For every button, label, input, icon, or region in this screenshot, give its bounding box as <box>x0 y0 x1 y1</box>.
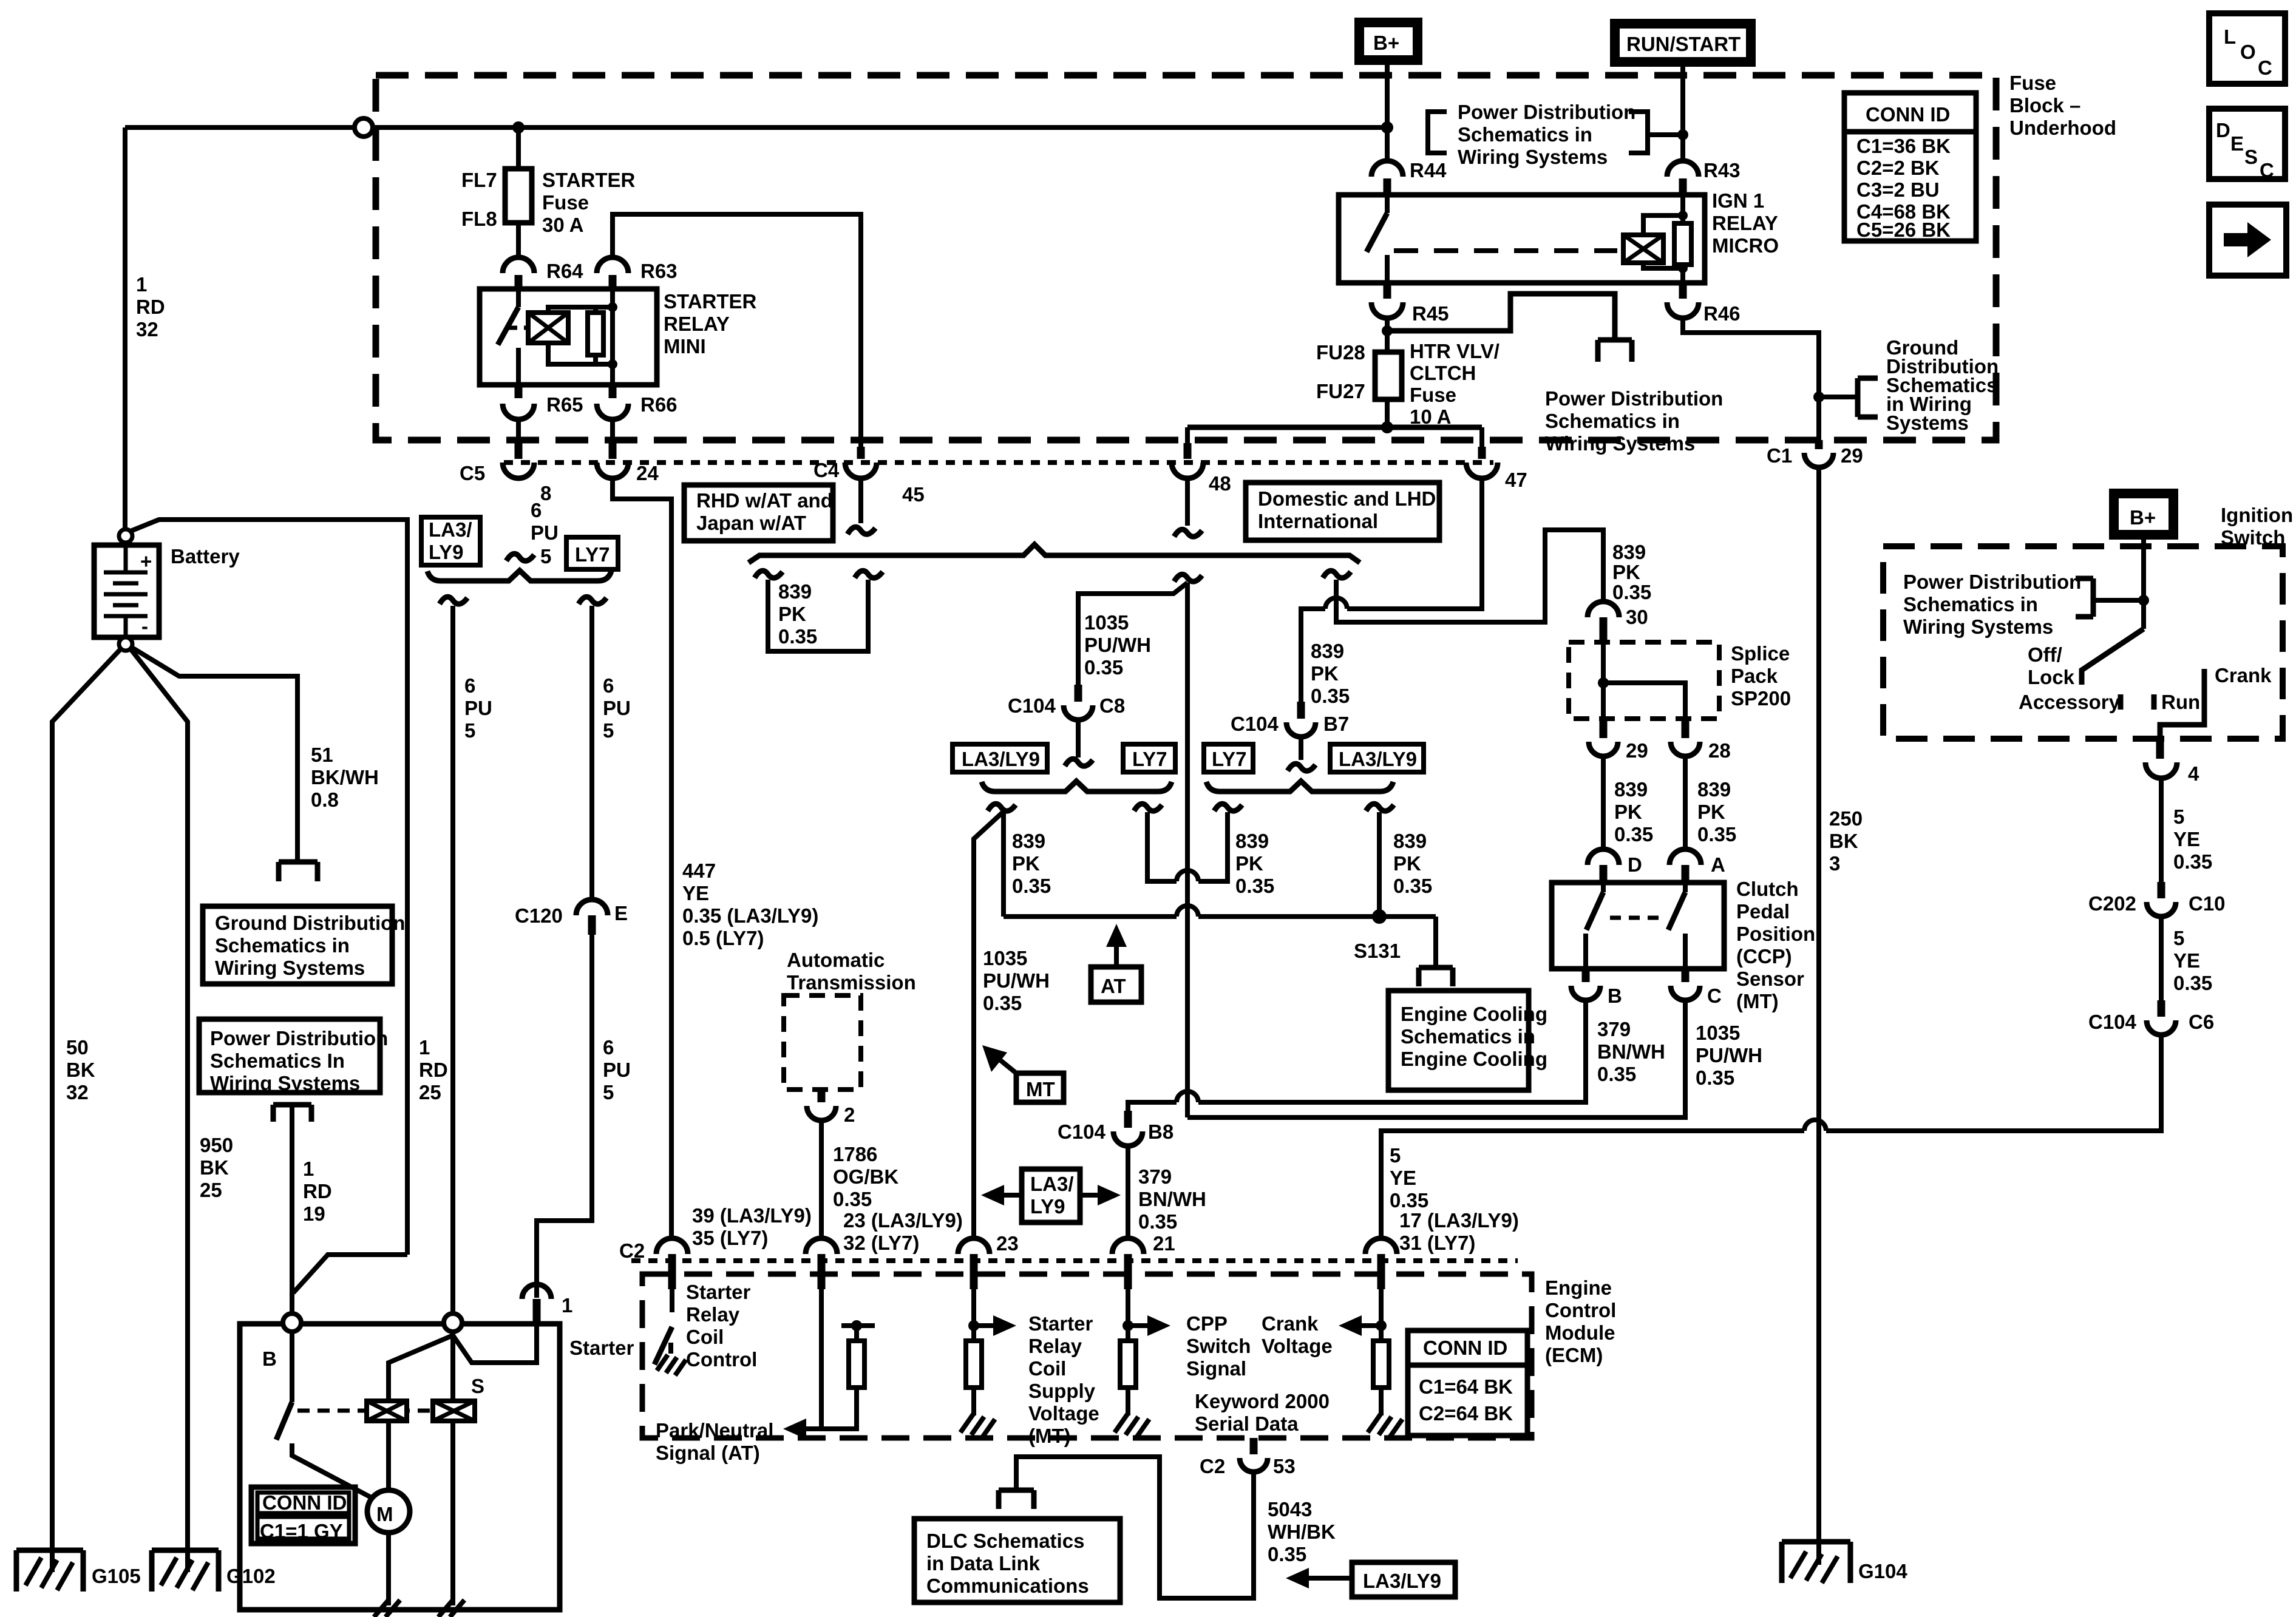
svg-text:5: 5 <box>1390 1144 1401 1167</box>
svg-text:FU27: FU27 <box>1316 380 1365 402</box>
svg-text:B: B <box>262 1347 277 1370</box>
svg-text:2: 2 <box>844 1103 855 1126</box>
svg-text:Systems: Systems <box>1886 412 1969 434</box>
svg-text:PK: PK <box>1012 852 1040 875</box>
svg-text:Voltage: Voltage <box>1262 1335 1333 1357</box>
svg-text:YE: YE <box>1390 1167 1416 1189</box>
svg-text:Starter: Starter <box>686 1281 751 1303</box>
svg-text:C104: C104 <box>1231 713 1279 735</box>
svg-text:0.35: 0.35 <box>1235 875 1274 897</box>
svg-text:Signal (AT): Signal (AT) <box>656 1442 760 1464</box>
svg-text:DLC Schematics: DLC Schematics <box>926 1530 1084 1552</box>
svg-text:45: 45 <box>902 483 925 506</box>
svg-text:0.35 (LA3/LY9): 0.35 (LA3/LY9) <box>682 904 818 927</box>
svg-text:32: 32 <box>66 1081 89 1103</box>
svg-text:839: 839 <box>1612 541 1646 563</box>
svg-text:R46: R46 <box>1703 302 1741 325</box>
svg-text:D: D <box>2216 119 2230 141</box>
svg-text:Voltage: Voltage <box>1028 1402 1099 1425</box>
svg-text:0.35: 0.35 <box>1084 656 1123 679</box>
svg-text:IGN 1: IGN 1 <box>1712 189 1764 212</box>
svg-text:53: 53 <box>1273 1455 1296 1477</box>
svg-text:PU: PU <box>531 521 559 544</box>
svg-text:L: L <box>2224 25 2236 48</box>
svg-text:C5=26 BK: C5=26 BK <box>1856 219 1951 241</box>
svg-text:C6: C6 <box>2189 1011 2214 1033</box>
svg-text:B+: B+ <box>1373 32 1399 54</box>
svg-text:839: 839 <box>1012 830 1045 852</box>
svg-text:10 A: 10 A <box>1410 405 1451 428</box>
svg-text:BK: BK <box>1829 830 1858 852</box>
svg-text:STARTER: STARTER <box>542 169 636 191</box>
svg-text:LA3/LY9: LA3/LY9 <box>1339 748 1417 770</box>
svg-text:Schematics In: Schematics In <box>210 1049 345 1072</box>
svg-text:0.8: 0.8 <box>311 788 339 811</box>
svg-text:RD: RD <box>136 296 165 318</box>
svg-text:35 (LY7): 35 (LY7) <box>692 1227 768 1249</box>
svg-text:R64: R64 <box>546 260 583 282</box>
svg-text:839: 839 <box>1393 830 1427 852</box>
svg-text:Pedal: Pedal <box>1736 900 1790 923</box>
svg-text:Schematics in: Schematics in <box>1401 1025 1535 1048</box>
svg-text:Sensor: Sensor <box>1736 968 1804 990</box>
svg-text:C1=36 BK: C1=36 BK <box>1856 135 1951 157</box>
svg-text:R63: R63 <box>640 260 678 282</box>
svg-text:1: 1 <box>419 1036 430 1059</box>
svg-text:839: 839 <box>778 580 812 603</box>
svg-text:5: 5 <box>2173 927 2184 949</box>
svg-text:Switch: Switch <box>1186 1335 1251 1357</box>
svg-text:Engine Cooling: Engine Cooling <box>1401 1003 1547 1025</box>
svg-text:FU28: FU28 <box>1316 341 1365 364</box>
svg-text:PU/WH: PU/WH <box>983 969 1050 992</box>
svg-text:Control: Control <box>1545 1299 1616 1321</box>
svg-text:R44: R44 <box>1410 159 1447 181</box>
svg-text:23 (LA3/LY9): 23 (LA3/LY9) <box>843 1209 963 1232</box>
svg-text:YE: YE <box>2173 828 2200 850</box>
svg-text:Coil: Coil <box>1028 1357 1066 1380</box>
svg-text:5: 5 <box>603 719 614 742</box>
svg-text:PK: PK <box>1614 801 1642 823</box>
svg-text:PK: PK <box>1235 852 1263 875</box>
svg-text:B: B <box>1608 985 1622 1007</box>
svg-text:CONN ID: CONN ID <box>262 1491 347 1514</box>
svg-text:839: 839 <box>1235 830 1269 852</box>
svg-text:6: 6 <box>603 1036 614 1059</box>
svg-text:Schematics in: Schematics in <box>1458 123 1592 146</box>
svg-text:Off/: Off/ <box>2028 643 2062 666</box>
svg-text:B8: B8 <box>1148 1120 1173 1143</box>
svg-text:Module: Module <box>1545 1321 1615 1344</box>
svg-text:PK: PK <box>1311 662 1339 685</box>
svg-text:FL7: FL7 <box>461 169 497 191</box>
svg-text:950: 950 <box>200 1134 233 1156</box>
svg-text:0.35: 0.35 <box>2173 972 2212 994</box>
svg-text:Park/Neutral: Park/Neutral <box>656 1419 773 1442</box>
svg-text:C: C <box>1707 985 1722 1007</box>
svg-text:OG/BK: OG/BK <box>833 1165 898 1188</box>
svg-text:CLTCH: CLTCH <box>1410 362 1476 384</box>
svg-text:FL8: FL8 <box>461 208 497 230</box>
svg-text:Power Distribution: Power Distribution <box>1545 387 1723 410</box>
svg-text:23: 23 <box>996 1232 1019 1255</box>
svg-text:Starter: Starter <box>1028 1312 1093 1335</box>
svg-text:839: 839 <box>1614 778 1648 801</box>
svg-text:1035: 1035 <box>1696 1022 1740 1044</box>
svg-text:30 A: 30 A <box>542 214 583 236</box>
svg-text:RELAY: RELAY <box>664 313 730 335</box>
svg-text:Ignition: Ignition <box>2221 504 2293 526</box>
svg-text:LA3/LY9: LA3/LY9 <box>1363 1570 1441 1592</box>
svg-text:Wiring Systems: Wiring Systems <box>1545 432 1695 455</box>
svg-text:MT: MT <box>1026 1078 1055 1100</box>
svg-text:Power Distribution: Power Distribution <box>1903 571 2081 593</box>
svg-text:5: 5 <box>540 545 551 568</box>
svg-text:1: 1 <box>562 1294 572 1317</box>
svg-text:Signal: Signal <box>1186 1357 1246 1380</box>
svg-text:MICRO: MICRO <box>1712 234 1779 257</box>
svg-text:PK: PK <box>1697 801 1725 823</box>
svg-text:YE: YE <box>682 882 709 904</box>
svg-text:YE: YE <box>2173 949 2200 972</box>
svg-text:PK: PK <box>778 603 806 625</box>
svg-text:Coil: Coil <box>686 1326 724 1348</box>
svg-text:32: 32 <box>136 318 158 341</box>
svg-text:BN/WH: BN/WH <box>1138 1188 1206 1210</box>
svg-text:Serial Data: Serial Data <box>1195 1412 1299 1435</box>
svg-text:C120: C120 <box>515 904 563 927</box>
svg-text:Relay: Relay <box>1028 1335 1082 1357</box>
svg-text:0.35: 0.35 <box>1696 1066 1734 1089</box>
svg-text:Schematics in: Schematics in <box>215 934 350 957</box>
svg-text:29: 29 <box>1626 739 1648 762</box>
svg-text:CONN ID: CONN ID <box>1423 1337 1507 1359</box>
svg-text:Fuse: Fuse <box>542 191 589 214</box>
svg-text:PU: PU <box>603 697 631 719</box>
svg-text:1786: 1786 <box>833 1143 877 1165</box>
svg-text:0.35: 0.35 <box>983 992 1022 1014</box>
svg-text:C202: C202 <box>2088 892 2136 915</box>
svg-text:Wiring Systems: Wiring Systems <box>215 957 365 979</box>
svg-text:5043: 5043 <box>1268 1498 1312 1520</box>
svg-text:17 (LA3/LY9): 17 (LA3/LY9) <box>1399 1209 1519 1232</box>
svg-text:50: 50 <box>66 1036 89 1059</box>
svg-text:LY7: LY7 <box>1212 748 1247 770</box>
svg-text:G104: G104 <box>1858 1560 1907 1582</box>
svg-text:C1=1 GY: C1=1 GY <box>260 1520 343 1542</box>
svg-text:Position: Position <box>1736 923 1815 945</box>
svg-text:M: M <box>376 1503 393 1525</box>
svg-text:Wiring Systems: Wiring Systems <box>210 1072 360 1094</box>
svg-text:Wiring Systems: Wiring Systems <box>1903 615 2053 638</box>
svg-text:HTR VLV/: HTR VLV/ <box>1410 340 1500 362</box>
svg-text:G102: G102 <box>226 1565 276 1587</box>
svg-text:S131: S131 <box>1354 940 1401 962</box>
svg-text:C: C <box>2260 159 2274 181</box>
svg-text:Relay: Relay <box>686 1303 740 1326</box>
svg-text:0.35: 0.35 <box>778 625 817 648</box>
svg-text:Block –: Block – <box>2009 94 2080 117</box>
svg-text:R65: R65 <box>546 393 583 416</box>
svg-text:Pack: Pack <box>1731 665 1778 687</box>
svg-text:International: International <box>1258 510 1378 532</box>
svg-text:R43: R43 <box>1703 159 1741 181</box>
svg-text:5: 5 <box>603 1081 614 1103</box>
svg-text:0.5 (LY7): 0.5 (LY7) <box>682 927 764 949</box>
svg-text:S: S <box>2244 146 2258 168</box>
svg-text:Schematics in: Schematics in <box>1545 410 1680 432</box>
svg-text:PK: PK <box>1393 852 1421 875</box>
svg-text:Run: Run <box>2161 691 2200 713</box>
svg-text:CONN ID: CONN ID <box>1866 103 1950 126</box>
svg-text:0.35: 0.35 <box>1138 1210 1177 1233</box>
svg-text:G105: G105 <box>92 1565 141 1587</box>
svg-text:839: 839 <box>1697 778 1731 801</box>
svg-text:0.35: 0.35 <box>1268 1543 1306 1565</box>
svg-text:C104: C104 <box>2088 1011 2137 1033</box>
svg-text:Starter: Starter <box>569 1337 634 1359</box>
svg-text:D: D <box>1628 853 1642 876</box>
svg-text:Transmission: Transmission <box>787 971 916 994</box>
svg-text:(MT): (MT) <box>1028 1425 1071 1447</box>
svg-text:0.35: 0.35 <box>833 1188 872 1210</box>
svg-text:0.35: 0.35 <box>1697 823 1736 846</box>
svg-text:SP200: SP200 <box>1731 687 1791 710</box>
svg-text:Lock: Lock <box>2028 666 2075 688</box>
svg-text:Wiring Systems: Wiring Systems <box>1458 146 1608 168</box>
svg-text:LA3/LY9: LA3/LY9 <box>962 748 1040 770</box>
svg-text:Underhood: Underhood <box>2009 117 2116 139</box>
svg-text:0.35: 0.35 <box>2173 850 2212 873</box>
svg-text:PU: PU <box>464 697 492 719</box>
svg-text:PU: PU <box>603 1059 631 1081</box>
svg-text:1: 1 <box>303 1158 314 1180</box>
svg-text:47: 47 <box>1505 469 1527 491</box>
svg-text:6: 6 <box>531 499 542 521</box>
svg-text:RELAY: RELAY <box>1712 212 1778 234</box>
svg-text:+: + <box>140 550 152 572</box>
svg-text:LY9: LY9 <box>429 541 464 563</box>
svg-text:21: 21 <box>1153 1232 1175 1255</box>
svg-text:Communications: Communications <box>926 1575 1089 1597</box>
svg-text:PK: PK <box>1612 561 1640 583</box>
svg-text:C4: C4 <box>813 459 840 481</box>
svg-text:5: 5 <box>464 719 475 742</box>
svg-text:31 (LY7): 31 (LY7) <box>1399 1232 1475 1254</box>
svg-text:0.35: 0.35 <box>1597 1063 1636 1085</box>
svg-text:32 (LY7): 32 (LY7) <box>843 1232 919 1254</box>
svg-text:Engine: Engine <box>1545 1276 1612 1299</box>
svg-text:19: 19 <box>303 1202 325 1225</box>
svg-text:MINI: MINI <box>664 335 706 358</box>
svg-text:Accessory: Accessory <box>2019 691 2121 713</box>
svg-text:A: A <box>1711 853 1725 876</box>
svg-text:0.35: 0.35 <box>1614 823 1653 846</box>
svg-text:AT: AT <box>1101 975 1126 997</box>
svg-text:0.35: 0.35 <box>1311 685 1350 707</box>
svg-text:BK: BK <box>66 1059 95 1081</box>
svg-text:29: 29 <box>1841 444 1863 467</box>
svg-text:B7: B7 <box>1323 713 1349 735</box>
svg-text:C5: C5 <box>460 462 485 484</box>
svg-text:Engine Cooling: Engine Cooling <box>1401 1048 1547 1070</box>
svg-text:Fuse: Fuse <box>2009 72 2056 94</box>
svg-text:1035: 1035 <box>983 947 1027 969</box>
svg-text:RUN/START: RUN/START <box>1626 33 1741 55</box>
svg-text:LA3/: LA3/ <box>1030 1173 1074 1195</box>
svg-text:C104: C104 <box>1058 1120 1106 1143</box>
svg-text:3: 3 <box>1829 852 1840 875</box>
svg-text:Splice: Splice <box>1731 642 1790 665</box>
svg-text:6: 6 <box>603 674 614 697</box>
svg-text:LY7: LY7 <box>575 543 610 566</box>
svg-text:30: 30 <box>1626 606 1648 628</box>
svg-text:28: 28 <box>1708 739 1731 762</box>
svg-text:C1=64 BK: C1=64 BK <box>1419 1375 1513 1398</box>
svg-text:C2=64 BK: C2=64 BK <box>1419 1402 1513 1425</box>
svg-text:0.35: 0.35 <box>1612 581 1651 603</box>
svg-text:Ground Distribution: Ground Distribution <box>215 912 405 934</box>
svg-text:C2: C2 <box>619 1239 645 1262</box>
svg-text:RD: RD <box>303 1180 332 1202</box>
svg-text:C3=2 BU: C3=2 BU <box>1856 178 1940 201</box>
svg-text:(MT): (MT) <box>1736 990 1779 1012</box>
svg-text:250: 250 <box>1829 807 1863 830</box>
svg-text:LY7: LY7 <box>1132 748 1167 770</box>
svg-text:48: 48 <box>1209 472 1231 495</box>
svg-text:51: 51 <box>311 744 333 766</box>
svg-text:RHD w/AT and: RHD w/AT and <box>696 489 833 512</box>
svg-text:Keyword 2000: Keyword 2000 <box>1195 1390 1330 1412</box>
svg-text:O: O <box>2240 41 2256 63</box>
svg-text:5: 5 <box>2173 805 2184 828</box>
svg-text:1035: 1035 <box>1084 611 1129 634</box>
svg-text:0.35: 0.35 <box>1393 875 1432 897</box>
svg-text:Japan w/AT: Japan w/AT <box>696 512 806 534</box>
svg-text:Power Distribution: Power Distribution <box>210 1027 388 1049</box>
svg-text:E: E <box>614 902 628 924</box>
svg-text:R66: R66 <box>640 393 678 416</box>
svg-text:LY9: LY9 <box>1030 1195 1065 1218</box>
svg-text:Battery: Battery <box>171 545 240 568</box>
svg-text:LA3/: LA3/ <box>429 518 472 541</box>
svg-text:25: 25 <box>419 1081 441 1103</box>
svg-text:E: E <box>2230 132 2244 155</box>
svg-text:WH/BK: WH/BK <box>1268 1520 1336 1543</box>
svg-text:PU/WH: PU/WH <box>1084 634 1151 656</box>
svg-text:BK: BK <box>200 1156 229 1179</box>
svg-text:Fuse: Fuse <box>1410 384 1456 406</box>
svg-text:C104: C104 <box>1008 694 1056 717</box>
svg-text:0.35: 0.35 <box>1012 875 1051 897</box>
svg-text:Control: Control <box>686 1348 757 1371</box>
svg-text:(ECM): (ECM) <box>1545 1344 1603 1366</box>
svg-text:RD: RD <box>419 1059 448 1081</box>
svg-text:379: 379 <box>1597 1018 1631 1040</box>
svg-text:447: 447 <box>682 859 716 882</box>
svg-text:24: 24 <box>636 462 659 484</box>
svg-text:839: 839 <box>1311 640 1344 662</box>
svg-text:0.35: 0.35 <box>1390 1189 1428 1212</box>
svg-text:Crank: Crank <box>2215 664 2272 686</box>
svg-text:Domestic and LHD: Domestic and LHD <box>1258 487 1436 510</box>
svg-text:39 (LA3/LY9): 39 (LA3/LY9) <box>692 1204 812 1227</box>
svg-text:8: 8 <box>540 482 551 504</box>
svg-text:BN/WH: BN/WH <box>1597 1040 1665 1063</box>
svg-text:B+: B+ <box>2130 506 2156 529</box>
svg-text:Power Distribution: Power Distribution <box>1458 101 1635 123</box>
svg-text:C: C <box>2258 56 2272 79</box>
svg-text:6: 6 <box>464 674 475 697</box>
svg-text:379: 379 <box>1138 1165 1172 1188</box>
svg-text:-: - <box>141 615 148 637</box>
svg-text:STARTER: STARTER <box>664 290 757 313</box>
svg-text:R45: R45 <box>1412 302 1449 325</box>
svg-text:4: 4 <box>2188 762 2199 785</box>
svg-text:PU/WH: PU/WH <box>1696 1044 1762 1066</box>
svg-text:Supply: Supply <box>1028 1380 1096 1402</box>
svg-text:S: S <box>471 1375 484 1397</box>
svg-text:C1: C1 <box>1767 444 1792 467</box>
svg-text:BK/WH: BK/WH <box>311 766 379 788</box>
svg-text:C2: C2 <box>1200 1455 1225 1477</box>
svg-text:C8: C8 <box>1099 694 1125 717</box>
svg-text:C2=2 BK: C2=2 BK <box>1856 157 1940 179</box>
svg-text:C10: C10 <box>2189 892 2226 915</box>
svg-text:(CCP): (CCP) <box>1736 945 1792 968</box>
svg-text:CPP: CPP <box>1186 1312 1228 1335</box>
svg-text:Crank: Crank <box>1262 1312 1319 1335</box>
svg-text:1: 1 <box>136 273 147 296</box>
svg-text:in Data Link: in Data Link <box>926 1552 1041 1575</box>
svg-text:25: 25 <box>200 1179 222 1201</box>
svg-text:Schematics in: Schematics in <box>1903 593 2038 615</box>
svg-text:Clutch: Clutch <box>1736 878 1799 900</box>
svg-text:Automatic: Automatic <box>787 949 885 971</box>
